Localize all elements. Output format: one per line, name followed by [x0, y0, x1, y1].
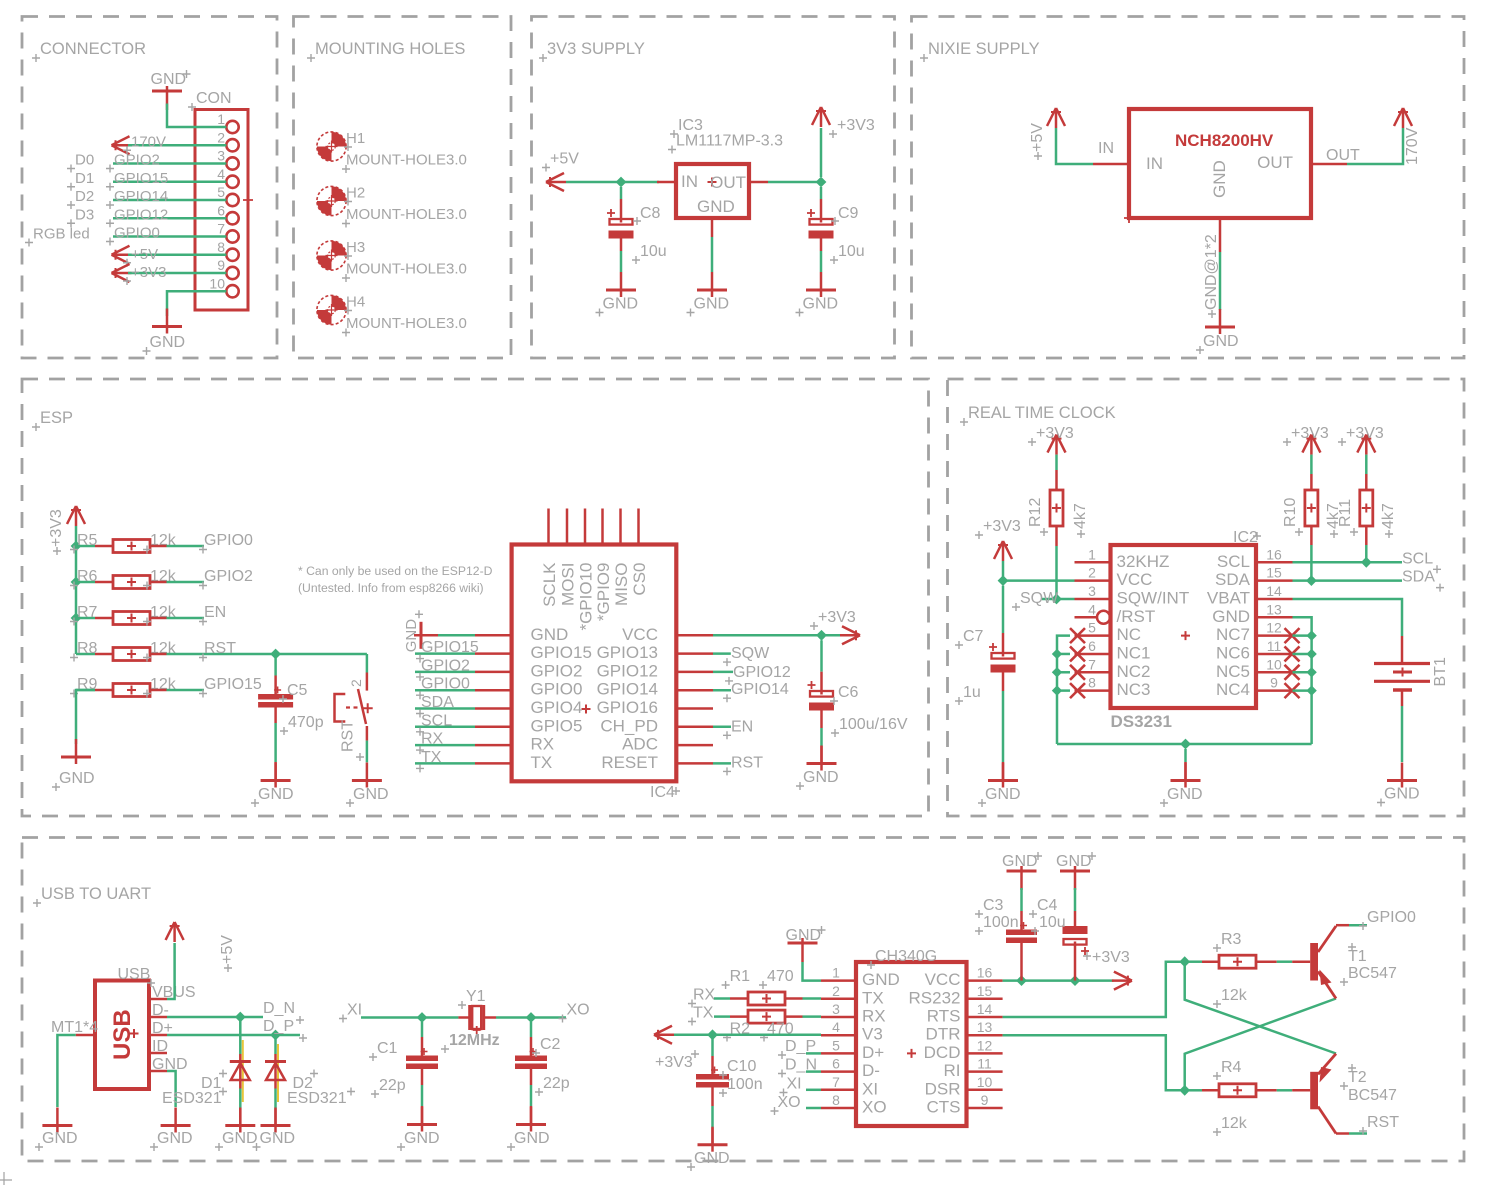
ground GND (C5) — [251, 763, 294, 808]
svg-text:10: 10 — [977, 1074, 993, 1090]
pin stub R6 right — [150, 581, 167, 584]
svg-text:12k: 12k — [1221, 1115, 1248, 1132]
value label 100u/16V (C6) — [831, 716, 908, 737]
label R3 — [1213, 931, 1242, 952]
svg-text:+3V3: +3V3 — [131, 264, 166, 281]
junction SQW at R12 — [1051, 594, 1062, 605]
net label D_P — [263, 1018, 307, 1042]
resistor R11 — [1360, 490, 1373, 526]
svg-text:GND: GND — [1212, 607, 1250, 626]
label Y1 — [458, 988, 486, 1009]
wire D2 top — [276, 1039, 279, 1102]
net label GPIO0 (T1) — [1359, 909, 1416, 930]
wire net SCL (IC4 left) — [415, 726, 475, 729]
svg-text:DTR: DTR — [926, 1025, 961, 1044]
svg-text:C3: C3 — [983, 897, 1004, 914]
svg-text:ID: ID — [152, 1038, 168, 1055]
supply arrow +3V3 (USB section) — [654, 1026, 674, 1044]
mounting hole H4 — [317, 295, 346, 324]
wire SDA net — [1293, 579, 1403, 582]
ground GND top of CON — [151, 70, 191, 110]
svg-text:SCLK: SCLK — [540, 562, 559, 607]
net label SDA — [1402, 569, 1444, 592]
net label GPIO0 (IC4 left) — [416, 676, 470, 700]
label C6 — [830, 684, 859, 705]
wire C7 top — [1002, 586, 1005, 652]
voltage regulator IC3 body — [676, 164, 749, 218]
svg-text:3: 3 — [217, 148, 225, 164]
section frame NIXIE SUPPLY — [912, 17, 1465, 359]
wire C4 bottom — [1074, 946, 1077, 981]
svg-text:(Untested. Info from esp8266 w: (Untested. Info from esp8266 wiki) — [298, 581, 484, 595]
pin label OUT (outside) — [1326, 147, 1360, 164]
resistor R3 — [1219, 955, 1256, 968]
svg-text:R1: R1 — [730, 968, 751, 985]
ESP module IC4 body — [512, 545, 677, 782]
svg-text:GPIO2: GPIO2 — [531, 661, 583, 680]
wire rail to GND — [1184, 749, 1187, 781]
section title MOUNTING HOLES — [307, 40, 465, 62]
value label 4k7 (R12, rotated) — [1072, 503, 1089, 538]
pin name D+ (CH340G left) — [862, 1043, 884, 1062]
pin name NC6 (IC2 right) — [1216, 643, 1250, 662]
pin name MISO (IC4, rotated) — [612, 563, 631, 606]
svg-text:NC4: NC4 — [1216, 680, 1250, 699]
svg-text:VCC: VCC — [925, 970, 961, 989]
wire +3V3 to V3 pin — [674, 1034, 821, 1037]
svg-text:H2: H2 — [346, 185, 365, 202]
svg-text:6: 6 — [217, 202, 225, 218]
resistor R10 — [1305, 490, 1318, 526]
wire CH_PD to EN — [713, 726, 731, 729]
label R6 — [70, 568, 98, 590]
ground GND (switch) — [346, 763, 389, 808]
pin name GPIO2 (IC4 left) — [531, 661, 583, 680]
resistor R8 — [113, 648, 150, 661]
svg-text:VCC: VCC — [1117, 570, 1153, 589]
pin stubs USB right — [149, 999, 167, 1071]
svg-text:C7: C7 — [963, 628, 984, 645]
pin stub Y1 right — [484, 1016, 496, 1019]
wire R5 to GPIO0 — [167, 545, 205, 548]
svg-text:TX: TX — [421, 749, 442, 766]
svg-text:Y1: Y1 — [466, 988, 486, 1005]
svg-text:8: 8 — [217, 239, 225, 255]
svg-text:MISO: MISO — [612, 563, 631, 606]
pin stub IC3 OUT — [749, 181, 768, 184]
label T2 — [1348, 1064, 1367, 1086]
net label RX — [688, 987, 716, 1008]
svg-text:GND: GND — [150, 334, 186, 351]
svg-text:10: 10 — [1266, 656, 1282, 672]
pin name SQW/INT (IC2 left) — [1117, 588, 1190, 607]
pin name RTS (CH340G right) — [927, 1007, 961, 1026]
svg-text:IC3: IC3 — [678, 117, 703, 134]
signal label D3 — [67, 206, 94, 227]
pin name GND (IC4 left) — [531, 625, 569, 644]
pin name SCL (IC2 right) — [1217, 552, 1250, 571]
junction NC bus pin 6 — [1052, 649, 1062, 659]
pin name OUT (NCH) — [1257, 153, 1293, 172]
value label 100n (C3) — [975, 914, 1019, 935]
pin stub Y1 left — [458, 1016, 470, 1019]
svg-text:NC1: NC1 — [1117, 643, 1151, 662]
label C7 — [955, 628, 984, 649]
pin stub R5 left — [95, 545, 113, 548]
connector CON name label — [188, 90, 232, 111]
label R12 (rotated) — [1027, 498, 1048, 536]
svg-text:GND: GND — [1002, 853, 1038, 870]
wire BT1 to GND — [1401, 706, 1404, 762]
pin stub IC3 GND — [711, 218, 714, 237]
svg-text:1: 1 — [1088, 546, 1096, 562]
svg-text:170V: 170V — [1404, 127, 1421, 165]
svg-text:+5V: +5V — [219, 935, 236, 964]
pin stub T1 collector — [1336, 924, 1349, 927]
svg-text:MOUNT-HOLE3.0: MOUNT-HOLE3.0 — [346, 315, 467, 332]
svg-text:*GPIO9: *GPIO9 — [594, 563, 613, 622]
label IC3 — [670, 117, 703, 138]
pin name GPIO4 (IC4 left) — [531, 698, 583, 717]
wire RTS net — [1003, 962, 1185, 1017]
junction R11/SCL — [1361, 557, 1372, 568]
wire CH340G GND pin up — [803, 962, 822, 981]
wire net GPIO0 (IC4 left) — [415, 689, 475, 692]
svg-text:MOUNT-HOLE3.0: MOUNT-HOLE3.0 — [346, 152, 467, 169]
no-connect crosses pins 12-9 — [1285, 628, 1300, 698]
capacitor C10 — [696, 1067, 729, 1088]
svg-text:GPIO2: GPIO2 — [114, 152, 160, 169]
svg-text:GND: GND — [59, 770, 95, 787]
svg-text:6: 6 — [1088, 638, 1096, 654]
supply arrow +5V — [546, 173, 566, 191]
svg-text:+5V: +5V — [550, 151, 579, 168]
svg-text:ESD321: ESD321 — [287, 1090, 347, 1107]
resistor R12 — [1050, 490, 1063, 526]
mounting hole H2 — [317, 186, 346, 215]
wire R11 bottom to SCL — [1365, 526, 1368, 562]
section title NIXIE SUPPLY — [920, 40, 1040, 62]
pin stub R4 left — [1202, 1089, 1219, 1092]
net label XI (CH340G) — [780, 1076, 802, 1097]
wire R10 bottom to SDA — [1310, 526, 1313, 581]
svg-text:GND: GND — [697, 197, 735, 216]
note text line 2 — [298, 581, 484, 595]
wires NC pins 12-9 to bus — [1293, 636, 1312, 691]
pin stub R3 left — [1202, 960, 1219, 963]
svg-text:D0: D0 — [75, 152, 94, 169]
svg-text:R11: R11 — [1337, 499, 1354, 527]
USB-UART bridge CH340G body — [856, 962, 967, 1126]
junction V3 at C10 — [707, 1029, 718, 1040]
net label +5V (USB, rotated) — [219, 935, 236, 972]
ground GND (C1) — [397, 1107, 440, 1152]
wire net GPIO14 to pin 5 — [113, 199, 226, 202]
junction R10/SDA — [1306, 575, 1317, 586]
label R9 — [70, 676, 98, 698]
svg-text:14: 14 — [1266, 583, 1282, 599]
svg-text:*GPIO10: *GPIO10 — [577, 563, 596, 631]
wire USB GND down — [167, 1071, 176, 1107]
battery BT1 — [1374, 636, 1430, 706]
svg-text:100n: 100n — [983, 914, 1019, 931]
svg-text:3: 3 — [832, 1001, 840, 1017]
junction at C8 — [616, 177, 627, 188]
supply arrow +3V3 (ESP ladder) — [67, 506, 85, 526]
svg-text:IN: IN — [681, 172, 698, 191]
svg-text:XI: XI — [787, 1076, 802, 1093]
svg-text:22p: 22p — [543, 1075, 570, 1092]
value label 10u (C9) — [830, 243, 865, 264]
pin number 2 (switch) — [348, 679, 364, 687]
svg-text:SCL: SCL — [421, 712, 452, 729]
pin label MT1*4 — [51, 1019, 98, 1036]
pin name ID (USB) — [152, 1038, 168, 1055]
pin stub NCH GND — [1219, 218, 1222, 252]
wire rail to R7 — [76, 617, 95, 620]
svg-text:GND: GND — [694, 1150, 730, 1167]
label C8 — [633, 205, 661, 225]
wire net GPIO2 (IC4 left) — [415, 671, 475, 674]
section title 3V3 SUPPLY — [539, 40, 645, 62]
svg-text:GND: GND — [258, 786, 294, 803]
svg-text:D3: D3 — [75, 206, 94, 223]
label R11 (rotated) — [1337, 499, 1358, 536]
net label GPIO14 — [106, 188, 168, 209]
svg-text:RGB led: RGB led — [33, 226, 90, 243]
label R10 (rotated) — [1282, 498, 1303, 536]
net label SDA (IC4 left) — [416, 694, 454, 718]
wire R9 to GPIO15 — [167, 689, 205, 692]
value label BC547 (T2) — [1340, 1082, 1397, 1104]
net label SQW (IC4) — [723, 645, 770, 666]
net label XO — [559, 1002, 590, 1023]
svg-text:GND: GND — [222, 1130, 258, 1147]
pin stub R3 right — [1256, 960, 1277, 963]
junction DTR at R4 — [1179, 1085, 1190, 1096]
svg-text:+3V3: +3V3 — [1346, 425, 1384, 442]
wire C9 bottom — [820, 239, 823, 273]
svg-text:8: 8 — [1088, 675, 1096, 691]
supply arrow +5V (CON) — [112, 246, 132, 264]
junction +3V3 rail at R5 — [71, 541, 82, 552]
svg-text:MT1*4: MT1*4 — [51, 1019, 98, 1036]
net label GND@1*2 (rotated) — [1203, 234, 1220, 318]
ground GND (C7) — [978, 763, 1021, 808]
svg-text:GPIO0: GPIO0 — [114, 225, 160, 242]
wire D1 top — [240, 1021, 243, 1102]
no-connect crosses pins 5-8 — [1070, 628, 1085, 698]
label H3 — [344, 239, 365, 260]
wire C4 top — [1074, 888, 1077, 926]
svg-text:GPIO12: GPIO12 — [597, 661, 658, 680]
svg-text:IC4: IC4 — [650, 784, 675, 801]
wire +5V to NCH IN — [1056, 128, 1093, 164]
capacitor C8 — [607, 209, 634, 239]
svg-text:2: 2 — [348, 679, 364, 687]
value label DS3231 — [1111, 712, 1172, 731]
wire IC3 OUT to +3V3 — [768, 181, 821, 184]
svg-text:DSR: DSR — [925, 1079, 961, 1098]
svg-text:D_N: D_N — [263, 1000, 295, 1017]
svg-text:13: 13 — [977, 1019, 993, 1035]
svg-text:TX: TX — [693, 1005, 714, 1022]
value label ESD321 (D2) — [287, 1088, 355, 1108]
svg-text:GND: GND — [1203, 333, 1239, 350]
pin name GND (IC3) — [697, 197, 735, 216]
pin stub R6 left — [95, 581, 113, 584]
label H2 — [344, 185, 365, 206]
wire +3V3 to VCC pin 2 — [1003, 561, 1075, 581]
label C2 — [532, 1036, 561, 1057]
wire GPIO14 label — [713, 689, 731, 692]
section title REAL TIME CLOCK — [960, 404, 1116, 426]
net label GPIO2 (ladder) — [199, 568, 253, 590]
svg-text:BC547: BC547 — [1348, 965, 1397, 982]
resistor R1 — [748, 992, 785, 1005]
svg-text:9: 9 — [1270, 675, 1278, 691]
pin stub switch pin 2 — [366, 673, 369, 691]
label C10 — [719, 1058, 756, 1079]
svg-text:+3V3: +3V3 — [837, 117, 875, 134]
svg-text:R8: R8 — [77, 640, 98, 657]
pin name NC4 (IC2 right) — [1216, 680, 1250, 699]
junction RTS at R3 — [1179, 956, 1190, 967]
wire NCH OUT to 170V — [1347, 128, 1403, 164]
pin name RESET (IC4 right) — [601, 753, 658, 772]
svg-text:NC3: NC3 — [1117, 680, 1151, 699]
svg-text:16: 16 — [977, 965, 993, 981]
svg-text:D-: D- — [862, 1061, 880, 1080]
value label 12k (R5) — [143, 532, 177, 554]
svg-text:GND: GND — [803, 296, 839, 313]
wire NC bus left — [1057, 636, 1070, 744]
svg-text:8: 8 — [832, 1092, 840, 1108]
svg-text:+3V3: +3V3 — [1291, 425, 1329, 442]
pin name GPIO16 (IC4 right) — [597, 698, 658, 717]
pin name *GPIO9 (IC4, rotated) — [594, 563, 613, 622]
svg-text:VCC: VCC — [622, 625, 658, 644]
switch RST actuator — [346, 703, 373, 713]
svg-text:RESET: RESET — [601, 753, 658, 772]
svg-text:GPIO2: GPIO2 — [204, 568, 253, 585]
wire D1 bottom — [239, 1063, 242, 1126]
label D1 — [201, 1070, 227, 1093]
label R4 — [1213, 1059, 1242, 1080]
section frame ESP — [22, 379, 929, 816]
value label MOUNT-HOLE3.0 (H3) — [342, 261, 467, 283]
pin stubs IC2 left — [1075, 562, 1111, 690]
svg-text:4: 4 — [832, 1019, 840, 1035]
svg-text:H4: H4 — [346, 294, 365, 311]
svg-text:13: 13 — [1266, 601, 1282, 617]
value label 470p (C5) — [280, 714, 324, 735]
junction VCC at C3 — [1016, 975, 1027, 986]
wire R4 left — [1189, 1089, 1202, 1092]
pin name VBAT (IC2 right) — [1207, 588, 1250, 607]
svg-text:TX: TX — [862, 988, 884, 1007]
svg-text:RST: RST — [204, 640, 236, 657]
crystal Y1 — [470, 1005, 484, 1034]
svg-text:XI: XI — [862, 1079, 878, 1098]
label C4 — [1029, 897, 1058, 918]
svg-text:SDA: SDA — [1402, 569, 1435, 586]
supply arrow 170V — [112, 136, 132, 154]
svg-text:RS232: RS232 — [909, 988, 961, 1007]
wire IC4 VCC to +3V3 — [713, 634, 842, 637]
svg-text:GPIO0: GPIO0 — [531, 680, 583, 699]
svg-text:XO: XO — [567, 1002, 590, 1019]
net label SCL (IC4 left) — [416, 712, 452, 736]
svg-text:100u/16V: 100u/16V — [839, 716, 908, 733]
connector CON box — [195, 110, 248, 311]
svg-text:GPIO12: GPIO12 — [733, 664, 791, 681]
ground GND (IC2) — [1160, 763, 1203, 808]
svg-text:1: 1 — [832, 965, 840, 981]
value label 470 (R2) — [760, 1021, 794, 1042]
wire R8 RST net — [167, 653, 367, 656]
value label 12k (R6) — [143, 568, 177, 590]
svg-text:* Can only be used on the ESP1: * Can only be used on the ESP12-D — [298, 564, 493, 578]
RTC IC2 body — [1111, 545, 1257, 708]
value label USB (rotated) — [109, 1009, 136, 1060]
junction VCC/C7 — [998, 575, 1009, 586]
pin name GPIO13 (IC4 right) — [597, 643, 658, 662]
value label NCH8200HV — [1175, 131, 1274, 150]
svg-text:EN: EN — [204, 604, 226, 621]
value label 22p (C1) — [371, 1077, 406, 1098]
pin name GND (CH340G left) — [862, 970, 900, 989]
wire rail to R6 — [76, 581, 95, 584]
label USB (connector) — [118, 966, 156, 987]
pin label IN (outside) — [1098, 140, 1114, 157]
pin name VCC (CH340G right) — [925, 970, 961, 989]
svg-text:9: 9 — [217, 257, 225, 273]
svg-text:RX: RX — [693, 987, 716, 1004]
wire net SDA (IC4 left) — [415, 707, 475, 710]
pin name GND (USB) — [152, 1056, 188, 1073]
svg-text:9: 9 — [981, 1092, 989, 1108]
pin name NC5 (IC2 right) — [1216, 662, 1250, 681]
diode D2 — [265, 1062, 286, 1081]
pin stub IC3 IN — [657, 181, 676, 184]
pin name MOSI (IC4, rotated) — [559, 563, 578, 606]
supply arrow +3V3 (IC4) — [840, 626, 860, 644]
net label EN (ladder) — [199, 604, 226, 626]
label RST (switch, rotated) — [340, 720, 365, 761]
svg-text:T2: T2 — [1348, 1069, 1367, 1086]
svg-text:D_P: D_P — [785, 1038, 816, 1055]
wire +5V to IC3 IN — [566, 181, 659, 184]
svg-text:15: 15 — [977, 983, 993, 999]
pin stub R5 right — [150, 545, 167, 548]
svg-text:+5V: +5V — [131, 246, 158, 263]
net label 170V — [123, 133, 166, 154]
module origin cross — [1124, 213, 1134, 223]
svg-text:GND: GND — [603, 296, 639, 313]
ground GND (CH340G, flipped) — [786, 926, 826, 962]
svg-text:+3V3: +3V3 — [655, 1054, 693, 1071]
wire VCC to +3V3 arrow — [1003, 979, 1114, 982]
pin numbers 16-9 (CH340G) — [977, 965, 993, 1108]
svg-text:GND: GND — [151, 71, 187, 88]
wire C2 top — [530, 1022, 533, 1056]
capacitor C6 — [808, 681, 835, 711]
net label GPIO2 (IC4 left) — [416, 657, 470, 681]
junction NC bus pin 7 — [1052, 667, 1062, 677]
svg-text:RI: RI — [944, 1061, 961, 1080]
wire R6 to GPIO2 — [167, 581, 205, 584]
